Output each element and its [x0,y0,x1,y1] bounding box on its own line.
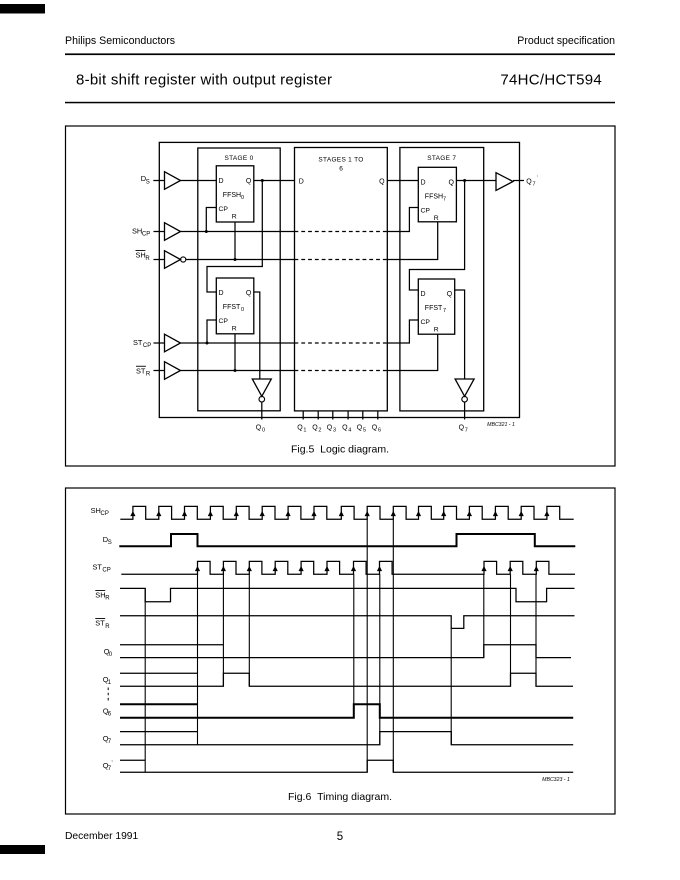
wire FFSH7 Q down to FFST7 D [409,181,464,291]
svg-text:R: R [146,372,151,378]
Q0 unknown-state high line [120,644,223,646]
STAGE 0 box [198,148,280,411]
svg-text:ST: ST [136,366,146,375]
svg-text:STAGE 7: STAGE 7 [427,155,456,162]
svg-text:4: 4 [348,428,351,434]
Fig.6 figure frame [66,488,616,814]
Q6 unknown-state high line [120,703,198,705]
STAGE 7 box [400,148,484,411]
svg-text:6: 6 [378,428,381,434]
svg-text:7: 7 [443,196,446,202]
svg-text:R: R [434,215,439,222]
svg-text:7: 7 [108,739,112,745]
svg-text:Philips Semiconductors: Philips Semiconductors [65,35,175,47]
svg-text:8-bit shift register with outp: 8-bit shift register with output registe… [76,72,332,89]
wire STCP line stage 0 [181,342,295,344]
svg-text:R: R [145,256,150,262]
svg-text:1: 1 [303,428,306,434]
junction SHCP to FFSH0 CP [205,230,208,233]
Q7 waveform [120,732,573,745]
svg-text:S: S [146,179,150,185]
connector STCP edge 3 down to Q1 [248,574,250,686]
svg-text:7: 7 [533,182,536,188]
svg-text:FFST: FFST [223,304,241,311]
svg-text:SH: SH [132,226,142,235]
svg-text:3: 3 [333,428,336,434]
wire SHCP label to buffer [154,231,165,233]
output stub Q2 [317,411,319,420]
svg-text:7: 7 [108,766,112,772]
logic diagram outer boundary [159,142,519,417]
inverter Q0 bubble [259,396,265,402]
flip-flop FFSH7 box [418,167,456,222]
connector STCP edge 9 down to Q0 [483,574,485,657]
svg-text:2: 2 [318,428,321,434]
svg-text:D: D [421,180,426,187]
svg-text:5: 5 [363,428,366,434]
svg-text:Q: Q [447,291,453,298]
svg-text:Q: Q [246,178,252,185]
wire to FFST0 CP [207,320,216,343]
connector STCP edge 11 down to Q0 and Q1 [535,574,537,686]
wire FFSH0 R down [234,222,236,260]
SHCP rising edge arrows [130,511,549,516]
output stub Q6 [377,411,379,420]
Q1 waveform [120,673,573,686]
dashed SHCP line through stages 1-6 [295,231,388,233]
svg-text:0: 0 [241,307,244,313]
flip-flop FFST0 box [216,278,254,334]
output inverter Q0 [252,379,271,396]
junction FFSH7 Q [463,179,466,182]
svg-text:’: ’ [111,761,112,767]
svg-text:ST: ST [93,562,103,571]
Q1 unknown-state high line [120,672,198,674]
connector SHCP edge 10 down to Q7prime [366,519,368,772]
connector STCP edge 2 down to Q1 [222,574,224,686]
junction FFSH0 Q [261,179,264,182]
svg-text:74HC/HCT594: 74HC/HCT594 [500,72,602,89]
svg-text:5: 5 [337,831,343,843]
wire SHR label to buffer [154,259,165,261]
svg-text:FFSH: FFSH [223,192,241,199]
svg-text:Q: Q [246,290,252,297]
svg-text:6: 6 [339,165,343,172]
svg-text:Q: Q [372,425,378,432]
wire to FFSH0 CP [206,208,216,232]
svg-text:CP: CP [219,318,229,325]
svg-text:7: 7 [443,308,446,314]
dashed SHR line through stages 1-6 [295,259,388,261]
junction STR to FFST0 R [234,369,237,372]
wire SHR into stage 7 (FFSH7 R) [387,222,437,260]
dashed STCP line through stages 1-6 [295,342,388,344]
svg-text:Q: Q [448,180,454,187]
wire FFST7 Q to inverter [455,290,465,379]
STR(bar) waveform [120,616,575,629]
wire DS buffer to FFSH0 D [181,180,217,182]
connector STCP edge 10 down to Q1 [510,574,512,686]
svg-text:STAGES 1 TO: STAGES 1 TO [318,157,363,164]
svg-text:6: 6 [108,711,112,717]
flip-flop FFST7 box [418,279,454,334]
svg-text:SH: SH [95,591,105,600]
wire STR label to buffer [154,370,165,372]
svg-text:CP: CP [101,511,109,517]
svg-text:S: S [108,540,112,546]
svg-text:MBC323 - 1: MBC323 - 1 [542,777,570,783]
svg-text:Q: Q [357,425,363,432]
input buffer STCP [165,334,181,352]
STCP clock waveform [121,561,575,574]
svg-text:R: R [232,326,237,333]
svg-text:FFSH: FFSH [425,194,443,201]
svg-text:R: R [434,327,439,334]
output stub Q5 [362,411,364,420]
wire Q7 out [464,402,466,420]
svg-text:R: R [105,624,110,630]
svg-text:R: R [105,596,110,602]
svg-text:STAGE 0: STAGE 0 [224,155,253,162]
SHR(bar) waveform [120,588,575,601]
inverting bubble on SHR buffer [181,257,186,262]
svg-text:CP: CP [143,343,151,349]
svg-text:SH: SH [136,251,146,260]
svg-text:0: 0 [262,428,265,434]
svg-text:D: D [421,291,426,298]
svg-text:Q: Q [327,425,333,432]
wire FFSH7 Q to output buffer [456,180,496,182]
STCP rising edge arrows [195,566,539,571]
input buffer DS [165,172,181,190]
svg-text:Q: Q [297,425,303,432]
svg-text:’: ’ [537,175,538,181]
svg-text:December 1991: December 1991 [65,831,139,842]
output stub Q4 [347,411,349,420]
Fig.5 figure frame [66,126,616,466]
flip-flop FFSH0 box [216,166,254,222]
svg-text:ST: ST [133,338,143,347]
svg-text:Q: Q [342,425,348,432]
input buffer SHCP [165,223,181,241]
svg-text:Q: Q [459,425,465,432]
output buffer Q7prime [496,173,513,191]
output stub Q1 [302,411,304,420]
svg-text:D: D [219,290,224,297]
svg-text:CP: CP [421,319,431,326]
svg-text:ST: ST [95,619,105,628]
svg-text:CP: CP [102,568,110,574]
svg-text:Q: Q [312,425,318,432]
connector STCP edge 7 down to Q6 [353,574,355,718]
svg-text:7: 7 [465,428,468,434]
svg-text:SH: SH [91,506,101,515]
output inverter Q7 [455,379,474,396]
wire FFSH0 Q to stages box D [254,180,295,182]
wire stages Q to stage7 D [387,180,418,182]
junction STCP to FFST0 CP [206,342,209,345]
DS waveform [119,534,575,546]
wire STCP label to buffer [154,342,165,344]
page edge mark top-left [0,4,45,14]
page edge mark bottom-left [0,845,45,854]
svg-text:Fig.5 Logic diagram.: Fig.5 Logic diagram. [291,444,389,456]
svg-text:MBC321 - 1: MBC321 - 1 [487,422,515,428]
Q7 unknown-state high line [120,731,198,733]
svg-text:CP: CP [219,206,229,213]
wire FFSH0 Q down to FFST0 D [207,181,262,293]
wire FFST0 Q to inverter [254,292,260,379]
svg-text:FFST: FFST [425,305,443,312]
wire SHCP line stage 0 [181,231,295,233]
inverter Q7 bubble [462,396,468,402]
connector STCP edge 1 down to Q7 [197,574,199,744]
wire STCP into stage 7 [387,320,418,343]
wire FFST0 R down [234,334,236,371]
Q0 waveform [120,645,571,658]
svg-text:CP: CP [142,232,150,238]
svg-text:R: R [232,213,237,220]
Q7prime unknown-state high line [120,759,145,761]
wire STR into stage 7 (FFST7 R) [387,334,437,370]
svg-text:Fig.6 Timing diagram.: Fig.6 Timing diagram. [288,791,392,803]
header rule [65,53,615,55]
svg-text:D: D [299,179,304,186]
junction SHR to FFSH0 R [234,258,237,261]
wire SHR line stage 0 [186,259,295,261]
STAGES 1 TO 6 box [295,148,388,411]
svg-text:Q: Q [256,425,262,432]
svg-text:D: D [219,178,224,185]
Q6 waveform [120,704,573,718]
wire SHCP into stage 7 [387,208,418,232]
input buffer STR [165,362,181,380]
svg-text:Q: Q [526,179,532,186]
connector STCP edge 8 down to Q6 and Q7 [379,574,381,744]
svg-text:CP: CP [421,207,431,214]
wire DS label to buffer [153,180,164,182]
output stub Q3 [332,411,334,420]
wire Q0 out [261,402,263,420]
svg-text:0: 0 [241,195,244,201]
svg-text:Product specification: Product specification [517,35,615,47]
wire STR line stage 0 [181,370,295,372]
wire buffer to Q7prime label [513,180,524,182]
connector STR fall down to Q7 [450,628,452,744]
svg-text:1: 1 [108,680,112,686]
SHCP clock waveform [120,506,573,519]
title rule [65,102,615,104]
input buffer SHR [165,251,181,269]
Q7prime waveform [120,760,573,772]
connector SHR fall to Q7prime [144,588,146,772]
dashed gap between Q1 and Q6 labels [107,688,109,704]
svg-text:0: 0 [109,652,113,658]
connector SHCP edge 11 down to Q7prime [392,519,394,772]
dashed STR line through stages 1-6 [295,370,388,372]
svg-text:Q: Q [379,179,385,186]
